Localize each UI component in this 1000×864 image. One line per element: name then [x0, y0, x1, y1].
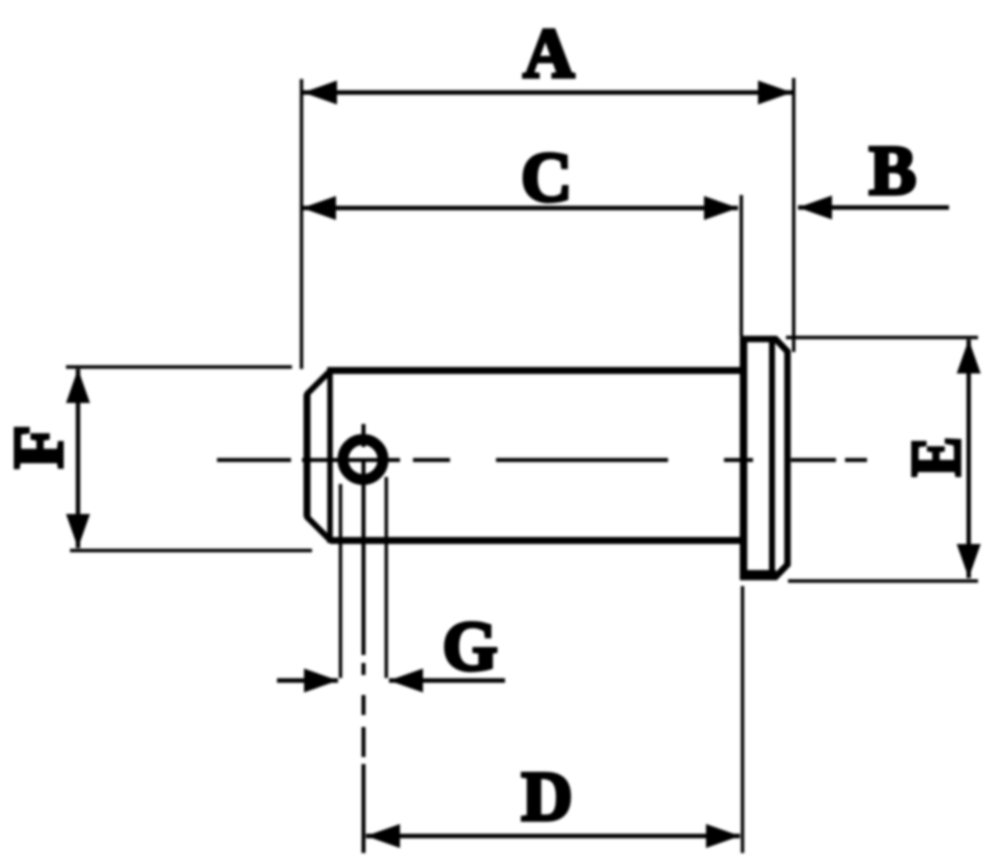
svg-text:B: B: [869, 132, 916, 210]
svg-text:C: C: [521, 139, 572, 217]
svg-text:E: E: [898, 437, 976, 477]
svg-text:G: G: [442, 608, 497, 686]
svg-text:F: F: [0, 425, 78, 468]
svg-text:D: D: [521, 758, 572, 836]
svg-text:A: A: [523, 15, 574, 93]
